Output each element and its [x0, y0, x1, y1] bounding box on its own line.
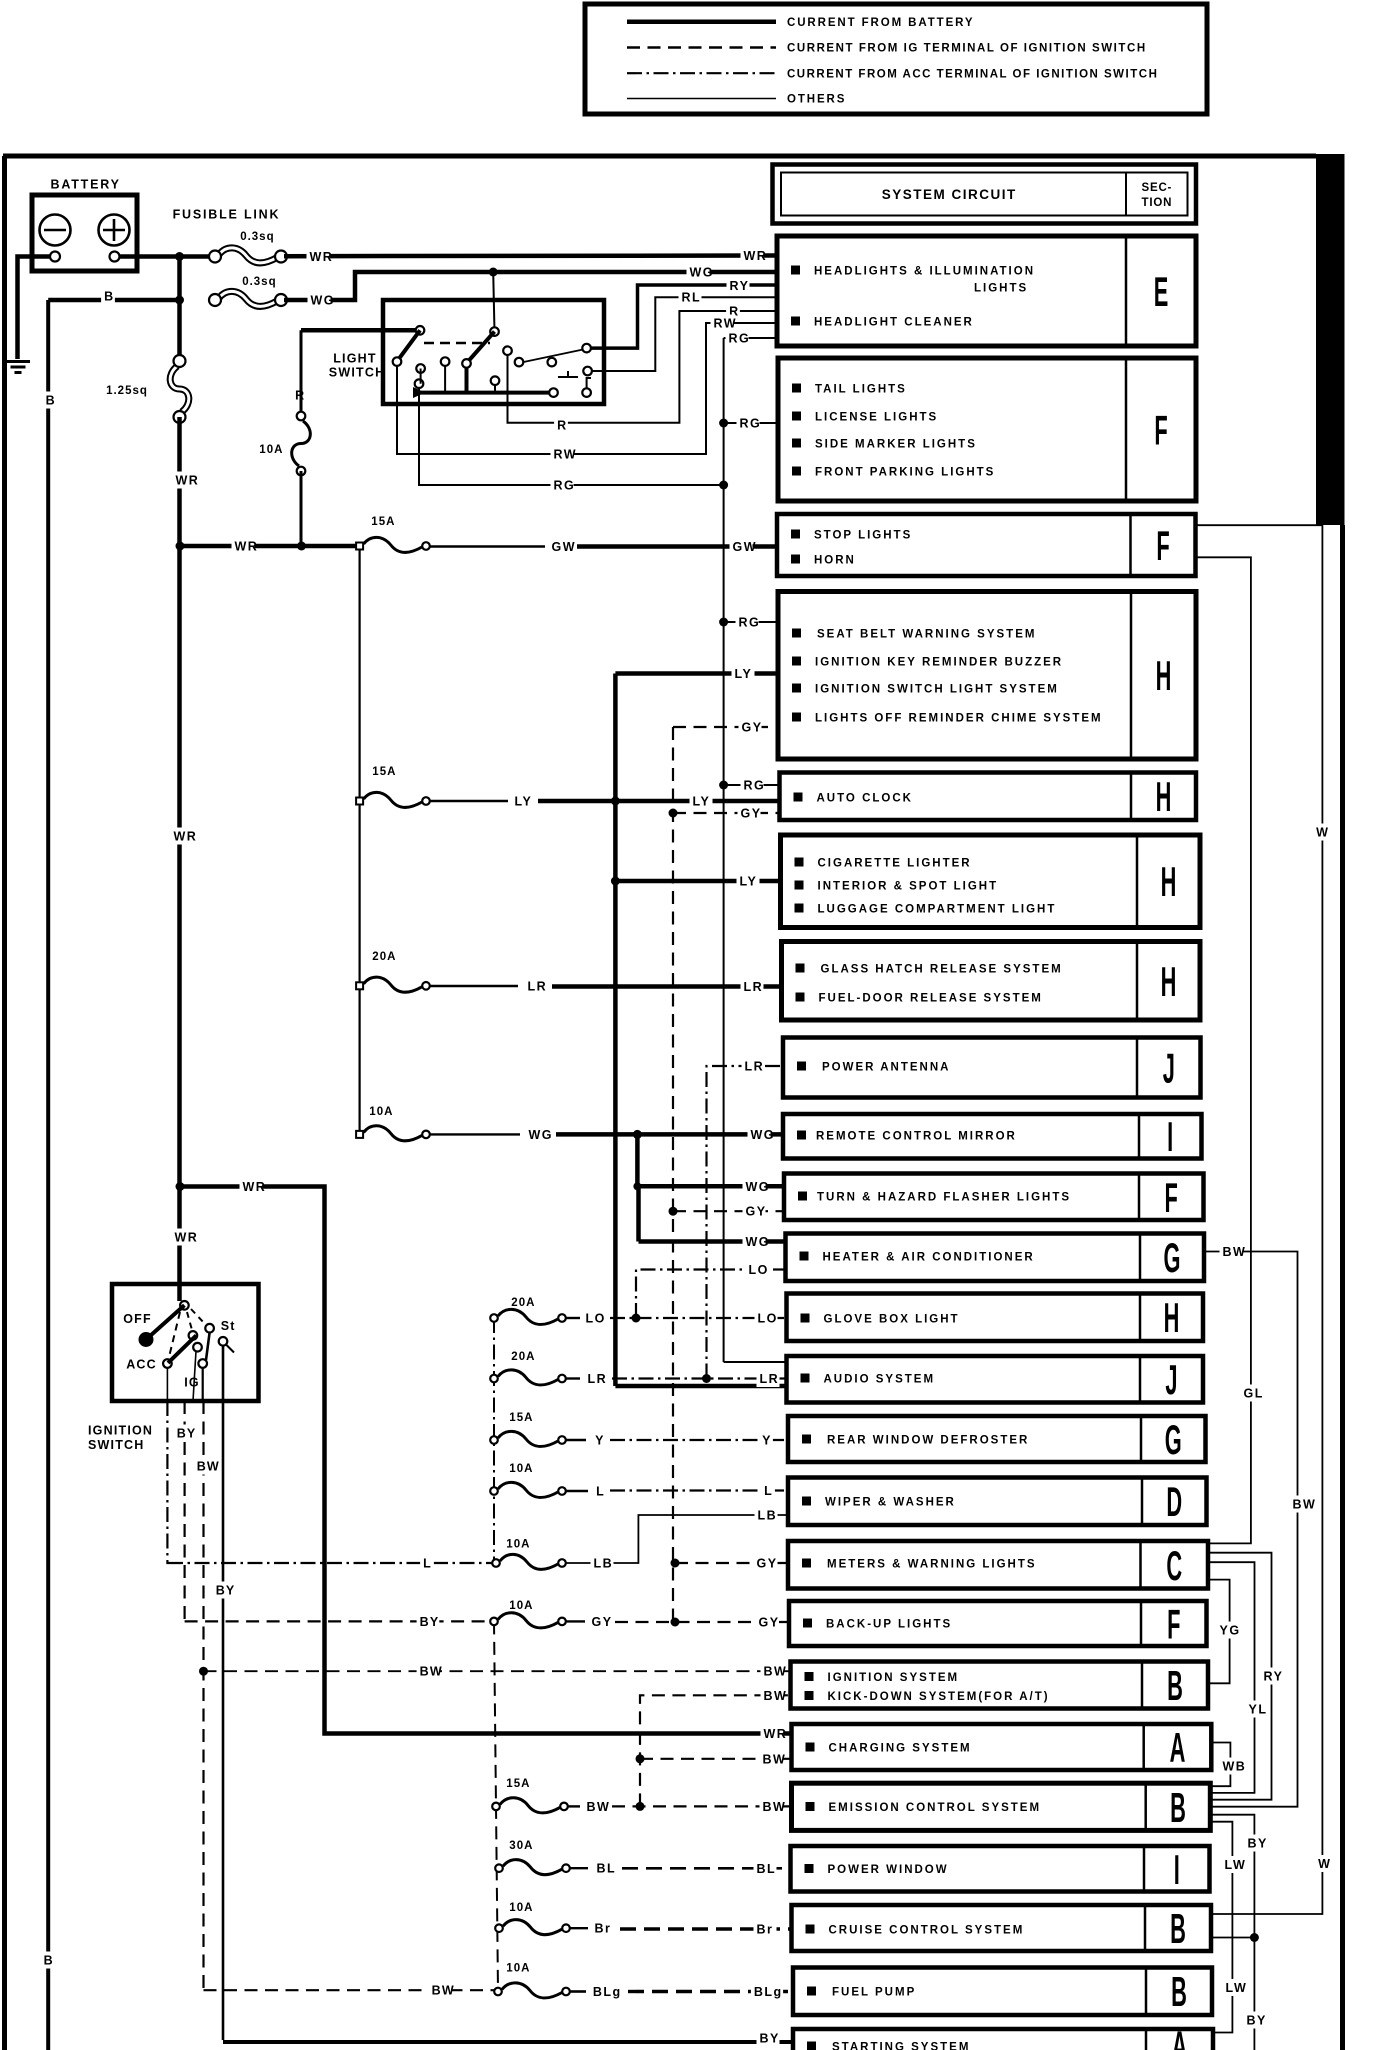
- wire WG tap into switch: [493, 272, 494, 332]
- fusible link FL2 0.3sq: [219, 291, 277, 306]
- node RG seat belt branch: [719, 618, 728, 627]
- light switch contact LS2: [393, 357, 402, 366]
- svg-text:B: B: [46, 394, 56, 408]
- system circuit box E headlights: [777, 236, 1196, 346]
- light switch box: [383, 300, 604, 404]
- label RG tail lights: [737, 415, 760, 432]
- svg-text:STARTING SYSTEM: STARTING SYSTEM: [832, 2041, 970, 2050]
- svg-text:INTERIOR & SPOT LIGHT: INTERIOR & SPOT LIGHT: [818, 880, 999, 892]
- svg-text:HEATER & AIR CONDITIONER: HEATER & AIR CONDITIONER: [823, 1251, 1035, 1263]
- svg-text:1.25sq: 1.25sq: [106, 385, 148, 397]
- fuse F3 20A LR: [364, 977, 422, 992]
- wire RG to seat belt box: [724, 621, 778, 623]
- wire L dash-dot to wiper: [610, 1489, 788, 1491]
- fuse F7 15A Y: [498, 1431, 558, 1446]
- svg-text:GY: GY: [592, 1615, 613, 1629]
- wire RY meters to emission: [1208, 1553, 1272, 1800]
- label WR fuse row: [232, 538, 255, 555]
- wire RG to tail lights box: [724, 422, 778, 424]
- system circuit box F turn hazard: [784, 1174, 1204, 1221]
- label BY at GY fuse: [417, 1613, 440, 1630]
- svg-text:GY: GY: [741, 807, 762, 821]
- label B wire upper: [43, 392, 57, 409]
- wire GY fuse output: [566, 1620, 585, 1622]
- label BW right bus: [1290, 1496, 1313, 1513]
- light switch bottom bar: [419, 391, 549, 395]
- svg-text:GY: GY: [757, 1557, 778, 1571]
- node RG light switch join: [719, 481, 728, 490]
- light switch contact LS11: [548, 358, 557, 367]
- svg-text:CURRENT FROM ACC TERMINAL OF I: CURRENT FROM ACC TERMINAL OF IGNITION SW…: [787, 68, 1158, 80]
- node BW charging branch: [636, 1754, 645, 1763]
- label YG: [1217, 1622, 1240, 1639]
- wire LR branch to power antenna: [707, 1066, 784, 1379]
- svg-text:L: L: [596, 1485, 605, 1499]
- wire LY to auto clock: [615, 799, 779, 804]
- node LO heater branch: [632, 1314, 641, 1323]
- system circuit box I remote mirror: [783, 1114, 1202, 1159]
- label LB wiper: [755, 1507, 778, 1524]
- node GY meters branch: [671, 1559, 680, 1568]
- svg-text:FUEL-DOOR RELEASE SYSTEM: FUEL-DOOR RELEASE SYSTEM: [819, 992, 1043, 1004]
- svg-text:LIGHT: LIGHT: [333, 352, 377, 366]
- battery negative terminal symbol: [40, 215, 71, 246]
- node J4 WR fuse-row junction: [176, 542, 185, 551]
- svg-text:BW: BW: [1223, 1245, 1247, 1259]
- light switch contact LS12: [582, 344, 591, 353]
- svg-text:AUDIO SYSTEM: AUDIO SYSTEM: [824, 1373, 936, 1385]
- svg-text:WR: WR: [243, 1180, 267, 1194]
- label B wire lower: [41, 1952, 55, 1969]
- svg-text:GY: GY: [742, 721, 763, 735]
- label Y defroster: [759, 1432, 773, 1449]
- svg-text:BY: BY: [420, 1615, 440, 1629]
- battery positive post: [110, 252, 120, 262]
- label LW lower: [1223, 1979, 1246, 1996]
- label GY auto clock: [738, 805, 761, 822]
- label LR antenna: [742, 1058, 765, 1075]
- light switch contact LS10: [515, 358, 524, 367]
- wire LY into audio box: [615, 1384, 786, 1389]
- svg-text:B: B: [1167, 1664, 1183, 1710]
- label BW kickdown: [761, 1687, 784, 1704]
- svg-text:E: E: [1154, 270, 1169, 316]
- svg-text:W: W: [1316, 826, 1329, 840]
- svg-text:METERS & WARNING LIGHTS: METERS & WARNING LIGHTS: [827, 1558, 1037, 1570]
- svg-text:LUGGAGE COMPARTMENT LIGHT: LUGGAGE COMPARTMENT LIGHT: [818, 903, 1057, 915]
- svg-text:R: R: [557, 419, 567, 433]
- svg-text:GW: GW: [552, 540, 577, 554]
- svg-text:BW: BW: [420, 1665, 443, 1679]
- svg-text:L: L: [423, 1557, 432, 1571]
- svg-text:LR: LR: [588, 1372, 608, 1386]
- label RG mid wire: [551, 477, 574, 494]
- svg-text:10A: 10A: [509, 1600, 533, 1612]
- label BLg fuel pump: [751, 1983, 783, 2000]
- wire BW dashed to emission box: [612, 1805, 792, 1807]
- node GY auto clock branch: [669, 809, 678, 818]
- svg-text:BY: BY: [177, 1427, 197, 1441]
- wire BY-St solid to starting system: [222, 1401, 225, 2040]
- label BY ignition upper: [174, 1425, 197, 1442]
- wire BY emission down: [1210, 1815, 1254, 2050]
- svg-text:LB: LB: [594, 1557, 614, 1571]
- svg-text:H: H: [1161, 860, 1177, 906]
- svg-text:F: F: [1156, 524, 1169, 570]
- svg-text:POWER WINDOW: POWER WINDOW: [828, 1864, 949, 1876]
- node BW emission junction: [636, 1802, 645, 1811]
- svg-text:ACC: ACC: [126, 1358, 157, 1372]
- svg-text:IGNITION: IGNITION: [88, 1424, 153, 1438]
- light switch contact LS4: [415, 379, 424, 388]
- border frame right black bar: [1316, 154, 1345, 525]
- system circuit box H glove box: [787, 1294, 1204, 1342]
- svg-text:W: W: [1318, 1857, 1331, 1871]
- wire RG light switch output: [419, 388, 724, 485]
- light switch arm LS11-12: [523, 350, 583, 363]
- label LB wire: [591, 1555, 614, 1572]
- svg-text:F: F: [1154, 408, 1167, 454]
- wire Y fuse output: [566, 1439, 586, 1441]
- label RG seat belt: [736, 614, 759, 631]
- wire BW heater to emission: [1204, 1252, 1298, 1807]
- svg-text:YL: YL: [1249, 1703, 1268, 1717]
- light switch contact LS8: [491, 376, 500, 385]
- node LY cigarette junction: [611, 877, 620, 886]
- svg-text:RG: RG: [740, 417, 762, 431]
- label BW ignition system box: [761, 1663, 784, 1680]
- svg-text:WG: WG: [529, 1128, 554, 1142]
- wire BW fuse output: [568, 1805, 580, 1807]
- node J5 WR charging branch: [176, 1182, 185, 1191]
- svg-text:REMOTE CONTROL MIRROR: REMOTE CONTROL MIRROR: [816, 1130, 1017, 1142]
- node BW ignition branch: [199, 1667, 208, 1676]
- system circuit box C meters: [788, 1541, 1208, 1589]
- node GY backup join: [671, 1618, 680, 1627]
- svg-text:WG: WG: [311, 294, 336, 308]
- svg-text:BACK-UP LIGHTS: BACK-UP LIGHTS: [826, 1618, 952, 1630]
- svg-text:SWITCH: SWITCH: [329, 366, 386, 380]
- svg-text:LW: LW: [1225, 1858, 1247, 1872]
- system circuit box A starting: [793, 2029, 1213, 2050]
- svg-text:SYSTEM CIRCUIT: SYSTEM CIRCUIT: [882, 187, 1017, 202]
- wire BW right sub-bus: [640, 1695, 791, 1806]
- wire LY fuse output: [430, 800, 508, 802]
- svg-text:OFF: OFF: [123, 1312, 152, 1326]
- wire fuse bus 1 vertical: [359, 546, 361, 1134]
- label WR charging box: [761, 1725, 784, 1742]
- svg-text:WR: WR: [744, 249, 768, 263]
- label L wiper: [761, 1482, 775, 1499]
- system circuit box H cigarette: [781, 835, 1201, 928]
- svg-text:IG: IG: [184, 1376, 200, 1390]
- label GY meters: [754, 1555, 777, 1572]
- wire LY to seat belt box: [615, 671, 778, 676]
- wire LO dash-dot: [610, 1317, 787, 1319]
- battery positive terminal symbol: [99, 215, 130, 246]
- svg-text:10A: 10A: [259, 444, 283, 456]
- svg-text:CRUISE CONTROL SYSTEM: CRUISE CONTROL SYSTEM: [829, 1924, 1025, 1936]
- wire LO fuse output: [566, 1317, 580, 1319]
- svg-text:RW: RW: [554, 448, 578, 462]
- wire WG sub-bus vertical: [637, 1134, 638, 1241]
- label RY at box E: [727, 277, 750, 294]
- label BW mid: [417, 1663, 440, 1680]
- legend others sample line: [627, 98, 776, 100]
- svg-text:IGNITION SWITCH LIGHT SYSTEM: IGNITION SWITCH LIGHT SYSTEM: [815, 683, 1059, 695]
- system circuit box H warning: [778, 592, 1196, 760]
- wire RL light switch output: [592, 297, 777, 371]
- svg-text:G: G: [1164, 1236, 1181, 1282]
- ignition switch contact IG mid: [193, 1343, 202, 1352]
- svg-text:LR: LR: [745, 1060, 765, 1074]
- wire WR battery positive feed: [119, 254, 211, 259]
- node LY bus junction: [611, 797, 620, 806]
- svg-text:H: H: [1164, 1296, 1180, 1342]
- svg-text:J: J: [1163, 1046, 1175, 1092]
- svg-text:F: F: [1167, 1602, 1180, 1648]
- label WG fusible link output: [308, 292, 331, 309]
- label LY auto clock: [690, 793, 713, 810]
- svg-text:15A: 15A: [506, 1778, 530, 1790]
- light switch arm LS6: [468, 332, 495, 362]
- label WR bus lower: [172, 1229, 195, 1246]
- wire RY light switch output: [591, 285, 777, 348]
- system circuit box I power window: [791, 1846, 1210, 1892]
- svg-text:BLg: BLg: [754, 1985, 783, 1999]
- wire R fuse riser: [300, 330, 303, 416]
- fuse F14 10A BLg: [502, 1983, 562, 1998]
- svg-text:TION: TION: [1142, 197, 1173, 209]
- ground G1: [6, 360, 30, 363]
- svg-text:B: B: [44, 1954, 54, 1968]
- svg-text:Y: Y: [595, 1434, 604, 1448]
- ignition switch box: [112, 1284, 259, 1401]
- node J6 R fuse at WR row: [297, 542, 306, 551]
- wire BW dashed to BLg fuse: [204, 1989, 495, 1991]
- system circuit box F stop horn: [777, 514, 1196, 576]
- svg-text:B: B: [104, 290, 114, 304]
- svg-text:WR: WR: [175, 1231, 199, 1245]
- label RG at box E: [726, 330, 749, 347]
- svg-text:AUTO CLOCK: AUTO CLOCK: [817, 792, 913, 804]
- svg-text:10A: 10A: [506, 1539, 530, 1551]
- wire LR thick to glass hatch box: [552, 984, 782, 989]
- wire LR fuse output: [566, 1377, 580, 1379]
- ignition switch arm ACC-IG: [168, 1335, 196, 1363]
- svg-text:H: H: [1161, 959, 1177, 1005]
- svg-text:YG: YG: [1220, 1624, 1241, 1638]
- svg-text:10A: 10A: [369, 1106, 393, 1118]
- system circuit box J audio: [787, 1356, 1204, 1403]
- svg-text:LY: LY: [740, 875, 758, 889]
- svg-text:CURRENT FROM IG TERMINAL OF IG: CURRENT FROM IG TERMINAL OF IGNITION SWI…: [787, 43, 1147, 55]
- wire battery negative to ground: [18, 257, 51, 360]
- svg-text:LO: LO: [758, 1312, 778, 1326]
- wire WR to headlights box: [284, 253, 777, 258]
- label WR bus upper: [173, 472, 196, 489]
- svg-text:BLg: BLg: [593, 1985, 622, 1999]
- label W upper: [1313, 824, 1327, 841]
- svg-text:15A: 15A: [372, 766, 396, 778]
- wire LR fuse output: [430, 985, 518, 987]
- ignition switch common contact: [180, 1301, 189, 1310]
- svg-text:SIDE MARKER LIGHTS: SIDE MARKER LIGHTS: [815, 438, 977, 450]
- fuse F12 30A BL: [503, 1860, 562, 1875]
- node BY cruise junction: [1250, 1933, 1259, 1942]
- wire LB fuse output to wiper: [566, 1515, 788, 1563]
- system circuit box G defroster: [788, 1416, 1206, 1462]
- svg-text:10A: 10A: [509, 1463, 533, 1475]
- system circuit box H auto clock: [780, 773, 1197, 821]
- label LR glass hatch: [741, 978, 764, 995]
- svg-text:BY: BY: [1247, 2014, 1267, 2028]
- ignition switch St tick: [226, 1345, 234, 1353]
- svg-text:HEADLIGHTS & ILLUMINATION: HEADLIGHTS & ILLUMINATION: [814, 265, 1035, 277]
- svg-text:LY: LY: [515, 795, 533, 809]
- label BW ignition upper: [194, 1458, 217, 1475]
- label YL: [1246, 1701, 1269, 1718]
- label BW at BLg fuse: [429, 1982, 452, 1999]
- svg-text:OTHERS: OTHERS: [787, 94, 846, 106]
- svg-text:I: I: [1167, 1115, 1173, 1161]
- fuse F4 10A WG: [364, 1126, 422, 1141]
- svg-text:WR: WR: [310, 250, 334, 264]
- light switch LS7 drop: [465, 367, 469, 393]
- light switch LS8 drop: [494, 385, 496, 393]
- fusible link FL1 0.3sq: [219, 248, 277, 263]
- label LR audio: [757, 1370, 780, 1387]
- wire WR to charging system: [180, 1187, 792, 1734]
- wire LO branch to heater: [636, 1270, 786, 1319]
- svg-text:CURRENT FROM BATTERY: CURRENT FROM BATTERY: [787, 17, 975, 29]
- svg-text:D: D: [1166, 1480, 1182, 1526]
- svg-text:RY: RY: [1264, 1670, 1284, 1684]
- label B wire horizontal: [101, 288, 115, 305]
- svg-text:A: A: [1172, 2024, 1188, 2050]
- border frame left: [2, 156, 7, 2050]
- svg-text:WR: WR: [176, 474, 200, 488]
- label LY cigarette: [737, 873, 760, 890]
- battery B1 box: [32, 195, 137, 271]
- system circuit box F exterior lights: [778, 358, 1196, 501]
- light switch contact LS13: [583, 367, 592, 376]
- svg-text:15A: 15A: [509, 1412, 533, 1424]
- label R at box E: [726, 303, 740, 320]
- svg-text:H: H: [1156, 775, 1172, 821]
- wire LY thick to bus: [538, 799, 615, 804]
- ignition switch St upper drop: [206, 1333, 210, 1361]
- svg-text:LR: LR: [760, 1372, 780, 1386]
- svg-text:FRONT PARKING LIGHTS: FRONT PARKING LIGHTS: [815, 466, 995, 478]
- wire YL meters to emission: [1208, 1562, 1255, 1793]
- wire B to battery bus: [48, 298, 179, 303]
- ignition switch contact ACC: [163, 1359, 172, 1368]
- label BY starting box: [757, 2030, 780, 2047]
- wire GY to meters box: [675, 1562, 788, 1564]
- wire LY to cigarette box: [615, 879, 780, 884]
- fuse F9 10A LB: [500, 1554, 558, 1569]
- label L on ACC feed: [420, 1555, 434, 1572]
- svg-text:LIGHTS OFF REMINDER CHIME SYST: LIGHTS OFF REMINDER CHIME SYSTEM: [815, 712, 1103, 724]
- wire WG fuse output: [430, 1133, 520, 1135]
- wire BL dashed to power window: [622, 1867, 791, 1870]
- legend IG sample dashed line: [627, 46, 776, 48]
- system circuit box H hatch release: [782, 942, 1201, 1021]
- label LW upper: [1222, 1856, 1245, 1873]
- svg-text:15A: 15A: [371, 516, 395, 528]
- fuse F6 20A LR: [498, 1370, 558, 1385]
- label GW at stop box: [730, 538, 753, 555]
- svg-text:0.3sq: 0.3sq: [242, 276, 276, 288]
- svg-text:B: B: [1170, 1785, 1186, 1831]
- wire GY to turn hazard box: [673, 1210, 784, 1212]
- svg-text:WIPER & WASHER: WIPER & WASHER: [825, 1496, 956, 1508]
- label R mid wire: [554, 417, 568, 434]
- svg-text:BY: BY: [216, 1584, 236, 1598]
- svg-text:BW: BW: [197, 1460, 220, 1474]
- light switch contact LS5: [441, 357, 450, 366]
- wire WR bus vertical upper: [177, 257, 182, 362]
- label WG at system box E: [687, 264, 710, 281]
- wire BL fuse output: [570, 1867, 588, 1869]
- svg-text:BW: BW: [1293, 1498, 1317, 1512]
- ignition switch IG terminal drop: [202, 1368, 204, 1401]
- system circuit box D wiper washer: [788, 1478, 1207, 1526]
- label BY right upper: [1245, 1835, 1268, 1852]
- wire GY to seat belt box: [673, 726, 778, 728]
- svg-text:BW: BW: [587, 1800, 611, 1814]
- node WG turn corner: [633, 1182, 641, 1190]
- wire B ground bus vertical: [46, 300, 50, 2050]
- ignition switch OFF arm: [150, 1305, 184, 1336]
- svg-text:30A: 30A: [509, 1840, 533, 1852]
- svg-text:C: C: [1166, 1543, 1182, 1589]
- wire Br fuse output: [570, 1927, 588, 1929]
- svg-text:LR: LR: [744, 980, 764, 994]
- label RL wire: [679, 289, 702, 306]
- node J1 battery feed: [175, 252, 184, 261]
- wire R fuse to WR bus: [300, 471, 303, 546]
- node RG tail lights branch: [719, 419, 728, 428]
- label RG auto clock: [741, 777, 764, 794]
- light switch contact LS1: [416, 326, 425, 335]
- fuse F10 10A GY: [498, 1613, 558, 1628]
- svg-text:FUEL PUMP: FUEL PUMP: [832, 1986, 916, 1998]
- label WR branch: [240, 1178, 263, 1195]
- light switch LS15 link: [587, 378, 591, 388]
- wire R light switch output: [508, 311, 778, 423]
- ignition switch link common-IG dash: [187, 1312, 192, 1330]
- svg-text:LO: LO: [586, 1312, 606, 1326]
- fuse F8 10A L: [498, 1482, 558, 1497]
- node J3 WG light switch tap: [489, 268, 498, 277]
- svg-text:REAR WINDOW DEFROSTER: REAR WINDOW DEFROSTER: [827, 1434, 1029, 1446]
- light switch contact LS15: [582, 388, 591, 397]
- svg-text:LIGHTS: LIGHTS: [974, 282, 1028, 294]
- svg-text:BW: BW: [763, 1752, 787, 1766]
- label BY right lower: [1244, 2012, 1267, 2029]
- svg-text:20A: 20A: [511, 1351, 535, 1363]
- wire R feed into light switch: [301, 328, 420, 333]
- ignition switch link common-St dash: [191, 1309, 206, 1325]
- svg-text:GLOVE BOX LIGHT: GLOVE BOX LIGHT: [824, 1313, 960, 1325]
- svg-text:WR: WR: [174, 830, 198, 844]
- wire Y dash-dot to defroster: [610, 1439, 788, 1441]
- svg-text:LB: LB: [758, 1509, 778, 1523]
- fuse F5 20A LO: [498, 1309, 558, 1324]
- svg-text:WR: WR: [235, 540, 259, 554]
